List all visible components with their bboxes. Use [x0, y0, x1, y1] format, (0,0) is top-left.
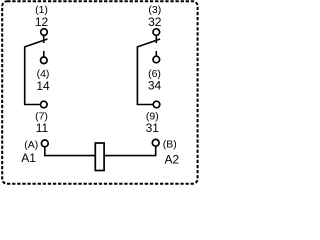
- svg-text:34: 34: [148, 79, 162, 93]
- svg-text:12: 12: [35, 15, 49, 29]
- wire common right: [137, 46, 152, 104]
- border frame: [2, 1, 197, 184]
- coil K: [95, 143, 104, 171]
- terminal 11: [41, 101, 48, 108]
- svg-text:31: 31: [146, 121, 160, 135]
- terminal 12: [41, 29, 48, 36]
- svg-text:A1: A1: [21, 151, 36, 165]
- terminal 31: [153, 101, 160, 108]
- terminal 32: [153, 29, 160, 36]
- switch arm K2: [137, 39, 160, 47]
- svg-text:14: 14: [36, 79, 50, 93]
- wire A1 to coil: [45, 147, 96, 156]
- terminal A1: [41, 140, 48, 147]
- svg-text:(A): (A): [24, 139, 38, 151]
- svg-text:11: 11: [36, 121, 49, 135]
- switch arm K1: [25, 39, 48, 47]
- contact tick 34: [155, 51, 157, 57]
- contact tick 12: [43, 36, 45, 43]
- svg-text:32: 32: [148, 15, 162, 29]
- svg-text:(B): (B): [163, 138, 177, 150]
- contact tick 32: [155, 36, 157, 43]
- wire common left: [25, 46, 40, 104]
- contact tick 14: [43, 51, 45, 57]
- wire A2 to coil: [104, 146, 155, 155]
- terminal 14: [41, 57, 48, 64]
- terminal A2: [152, 139, 159, 146]
- terminal 34: [153, 56, 160, 63]
- svg-text:A2: A2: [165, 152, 180, 166]
